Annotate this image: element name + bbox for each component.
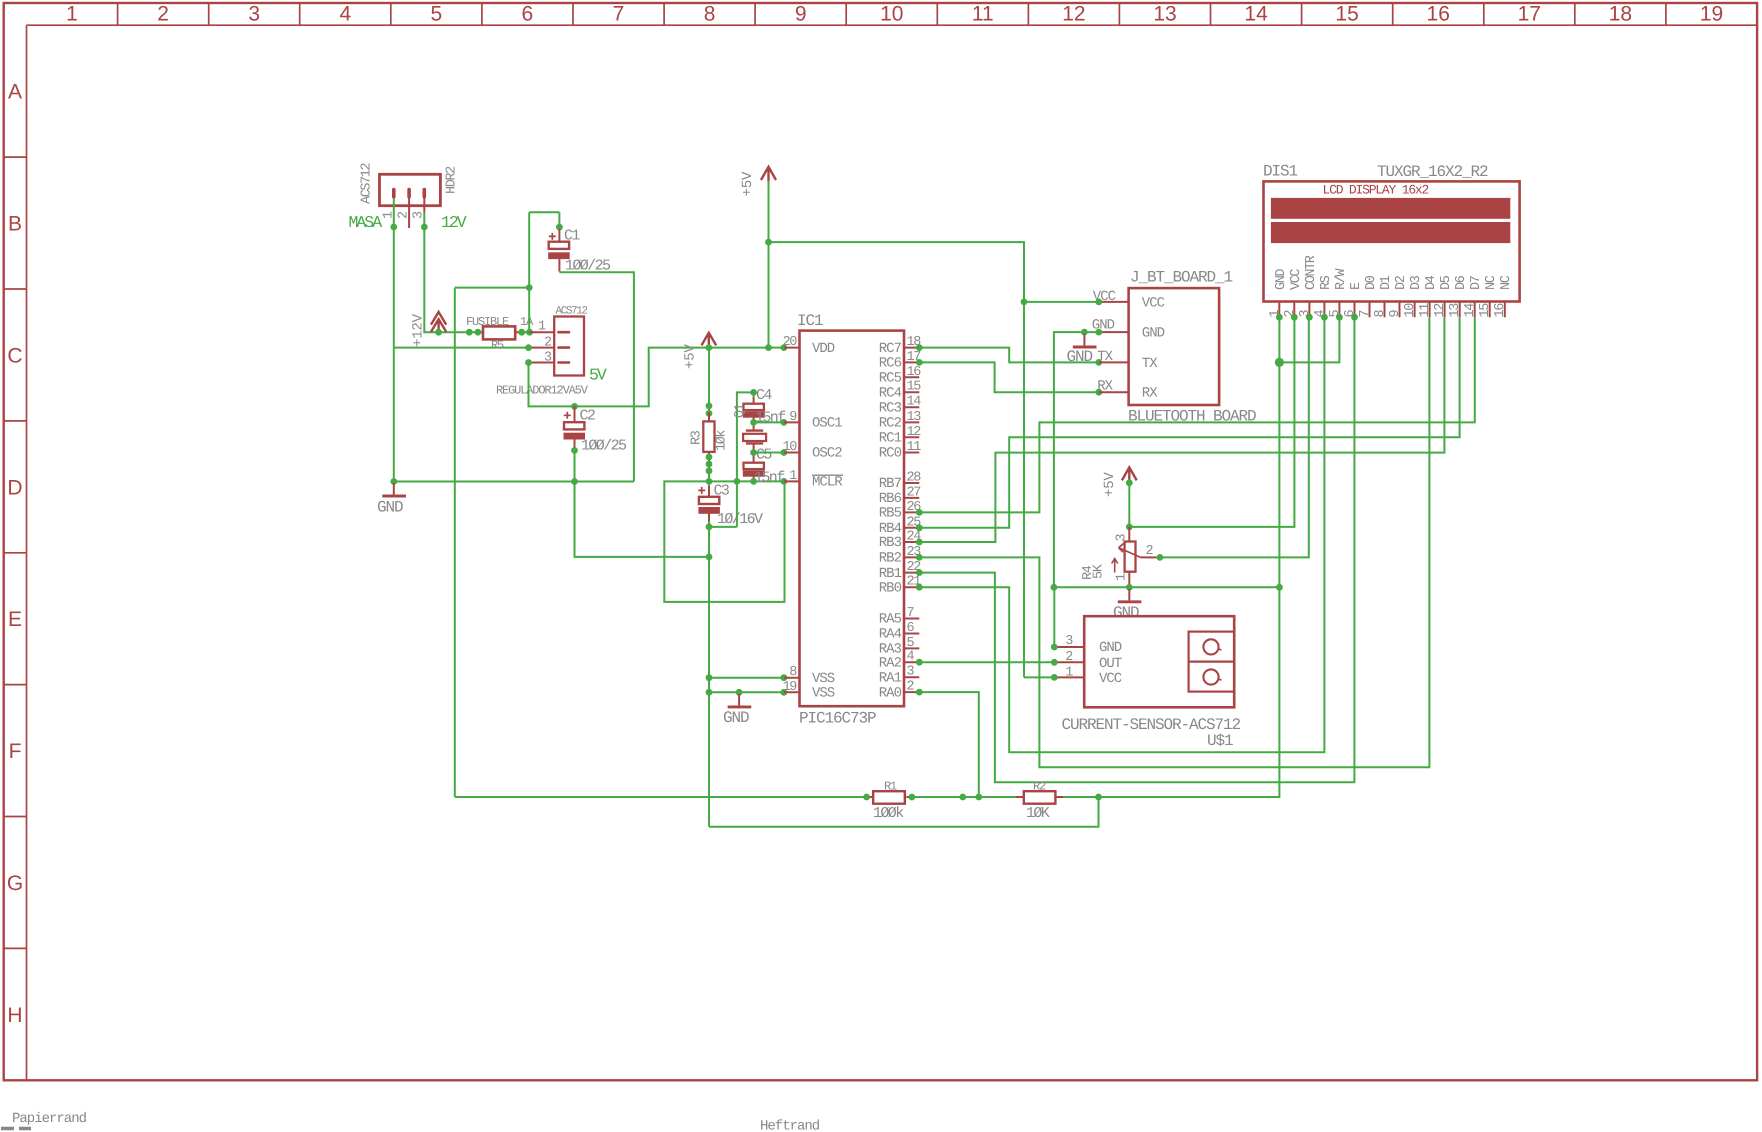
junction dot regulator pin2 xyxy=(525,344,532,351)
svg-text:16: 16 xyxy=(1427,3,1450,26)
potentiometer R4 5K body xyxy=(1125,542,1136,572)
junction dot C1 top xyxy=(556,224,563,231)
svg-text:RC2: RC2 xyxy=(879,416,902,432)
svg-text:4: 4 xyxy=(339,3,351,26)
HDR2 pin 3 lead xyxy=(423,198,425,213)
junction dot rail at LCD GND riser xyxy=(1276,584,1283,591)
svg-text:20: 20 xyxy=(783,335,798,350)
junction dot +12V arrow base xyxy=(435,329,442,336)
junction dot sensor pin2 xyxy=(1051,659,1058,666)
svg-text:OUT: OUT xyxy=(1099,656,1122,672)
svg-text:12: 12 xyxy=(1433,303,1448,318)
junction dot divider mid b (RA0 tap) xyxy=(975,794,982,801)
wire MASA riser from header pin1 down to ground row xyxy=(393,226,395,482)
IC1 left-side pin leads xyxy=(784,348,800,693)
junction dot RA2 pin xyxy=(916,659,923,666)
wire C1 bottom to ground row xyxy=(559,272,634,481)
wire RB2 to LCD D4 xyxy=(919,317,1429,767)
svg-text:5V: 5V xyxy=(589,366,607,385)
svg-text:RC0: RC0 xyxy=(879,446,902,462)
regulator U2 ACS712 REGULADOR12VA5V body xyxy=(554,317,584,376)
wire RB5 to LCD D7 (bus 1) xyxy=(919,317,1475,512)
svg-text:VCC: VCC xyxy=(1142,295,1165,311)
svg-text:C1: C1 xyxy=(564,228,580,245)
svg-text:12: 12 xyxy=(907,425,922,440)
svg-text:C5: C5 xyxy=(756,447,772,464)
sensor terminal block xyxy=(1189,632,1235,692)
wire LCD R/W tied to LCD GND riser xyxy=(1279,317,1339,362)
regulator pin 3 lead xyxy=(529,362,555,364)
wire ground rail at R4 row xyxy=(1054,586,1280,588)
fuse R6 FUSIBLE 1A body xyxy=(483,326,515,339)
wire MASA branch to regulator pin 2 xyxy=(394,347,529,349)
wire +5V riser down to VDD row xyxy=(768,181,770,348)
wire bottom ground loop xyxy=(709,797,1099,827)
svg-text:1Øk: 1Øk xyxy=(715,430,730,451)
wire 12V riser from header pin3 down to fuse row xyxy=(424,226,469,332)
svg-text:10: 10 xyxy=(783,440,798,455)
junction dot MCLR junction at R3/C3 xyxy=(706,478,713,485)
svg-text:R2: R2 xyxy=(1033,780,1046,794)
power symbol +5V arrow (at R4) xyxy=(1122,467,1137,481)
svg-text:14: 14 xyxy=(907,395,922,410)
junction dot +5V arrow at VDD row xyxy=(705,344,712,351)
svg-text:R/W: R/W xyxy=(1334,268,1349,290)
svg-text:RA4: RA4 xyxy=(879,627,902,643)
svg-text:9: 9 xyxy=(795,3,807,26)
svg-text:FUSIBLE 1A: FUSIBLE 1A xyxy=(466,315,534,329)
svg-text:+5V: +5V xyxy=(740,171,756,196)
svg-text:15: 15 xyxy=(907,380,922,395)
junction dot RC6 pin xyxy=(916,359,923,366)
wire divider row middle (R1 to R2) xyxy=(912,796,1016,798)
MCLR overline xyxy=(812,474,843,476)
wire RB4 to LCD D6 (bus 2) xyxy=(919,317,1459,528)
svg-text:D1: D1 xyxy=(1379,275,1394,290)
wire +5V branch to bluetooth VCC and sensor rail xyxy=(769,242,1025,677)
junction dot ground row at MASA xyxy=(390,478,397,485)
svg-text:15nf: 15nf xyxy=(754,470,785,487)
R4 adjust arrow mark xyxy=(1112,559,1118,573)
wire VSS pin19 row xyxy=(709,691,784,693)
wire crystal frame riser (C4 top to C3 bottom) xyxy=(737,392,754,527)
junction dot C3 rail at ground jog xyxy=(706,554,713,561)
svg-text:VDD: VDD xyxy=(812,341,835,357)
junction dot RB2 pin xyxy=(916,554,923,561)
svg-text:1ØØ/25: 1ØØ/25 xyxy=(581,438,627,455)
junction dot MCLR pin xyxy=(781,478,788,485)
junction dots below R3 xyxy=(706,454,713,461)
wire C2 bottom to ground row xyxy=(574,450,576,481)
ground symbol GND below VSS xyxy=(738,694,740,706)
wire +5V to R4 pin3 and LCD VCC xyxy=(1129,317,1294,527)
svg-text:GND: GND xyxy=(1274,269,1289,290)
svg-text:TX: TX xyxy=(1142,356,1158,372)
svg-text:+5V: +5V xyxy=(1102,472,1118,497)
svg-text:12V: 12V xyxy=(441,213,467,232)
svg-text:RC5: RC5 xyxy=(879,371,902,387)
wire RB0 to LCD RS xyxy=(919,317,1324,752)
capacitor C3 (electrolytic 10/16V) xyxy=(698,481,720,521)
junction dot regulator pin3 xyxy=(525,359,532,366)
junction dot ground row at C2 xyxy=(571,478,578,485)
svg-text:19: 19 xyxy=(1700,3,1723,26)
wire divider row right (R2 to ground riser) xyxy=(1063,796,1098,798)
svg-text:NC: NC xyxy=(1484,275,1499,290)
svg-text:10: 10 xyxy=(1403,303,1418,318)
capacitor C1 (electrolytic 100/25) xyxy=(548,229,570,272)
svg-text:RB1: RB1 xyxy=(879,566,902,582)
svg-text:GND: GND xyxy=(1142,326,1165,342)
wire sensor GND riser xyxy=(1053,587,1055,647)
junction dot C3 bottom xyxy=(706,524,713,531)
svg-text:D6: D6 xyxy=(1454,275,1469,290)
power symbol +5V arrow (at VDD rail) xyxy=(702,333,717,346)
junction dot C2 top xyxy=(571,403,578,410)
bluetooth module J_BT_BOARD_1 body xyxy=(1129,288,1220,405)
junction dot +5V arrow base at R4 xyxy=(1126,479,1133,486)
svg-text:1ØØk: 1ØØk xyxy=(873,805,904,822)
svg-text:RB0: RB0 xyxy=(879,580,902,596)
junction dots VSS8 xyxy=(706,674,713,681)
junction dot +5V riser at VDD row xyxy=(765,344,772,351)
wire sensor OUT to RA2 xyxy=(919,661,1054,663)
svg-text:U$1: U$1 xyxy=(1207,732,1233,750)
regulator pin 2 lead xyxy=(529,347,555,349)
column tick lines xyxy=(118,3,1666,25)
junction dot R1 left xyxy=(863,794,870,801)
svg-text:11: 11 xyxy=(972,3,994,26)
junction dots OSC2 row xyxy=(750,449,757,456)
svg-text:OSC2: OSC2 xyxy=(812,446,842,462)
ground symbol GND below R4 xyxy=(1128,589,1130,601)
junction dot +5V branch xyxy=(765,239,772,246)
R4 wiper pin 2 lead xyxy=(1141,556,1157,558)
junction dot bluetooth GND pin xyxy=(1095,329,1102,336)
svg-text:GND: GND xyxy=(1067,348,1093,366)
svg-text:16: 16 xyxy=(1493,303,1508,318)
wire MCLR outer loop (left-down-right-up) xyxy=(664,481,784,602)
wire R3 bottom to MCLR row xyxy=(708,463,710,481)
svg-text:27: 27 xyxy=(907,485,922,500)
svg-text:R5: R5 xyxy=(491,338,504,352)
svg-text:+5V: +5V xyxy=(683,344,699,369)
svg-text:D: D xyxy=(7,476,22,499)
svg-text:18: 18 xyxy=(1609,3,1632,26)
SECTION-BOTTOM xyxy=(455,317,1475,827)
sensor pin leads 3,2,1 xyxy=(1054,647,1084,677)
svg-text:RB3: RB3 xyxy=(879,535,902,551)
SECTION-BT xyxy=(916,269,1256,588)
power symbol +12V arrow xyxy=(431,312,446,332)
svg-text:B: B xyxy=(8,213,22,236)
HDR2 pin 2 lead xyxy=(408,198,410,228)
svg-text:D0: D0 xyxy=(1364,275,1379,290)
wire C1 top connection xyxy=(558,212,560,227)
svg-text:1: 1 xyxy=(66,3,78,26)
junction dot RB4 pin xyxy=(916,524,923,531)
svg-text:ACS712: ACS712 xyxy=(556,306,588,318)
svg-text:Papierrand: Papierrand xyxy=(12,1111,87,1127)
SECTION-IC xyxy=(664,167,1099,827)
svg-text:RC1: RC1 xyxy=(879,431,902,447)
crystal Q1 xyxy=(743,422,766,452)
svg-text:HDR2: HDR2 xyxy=(445,166,460,194)
svg-text:RX: RX xyxy=(1142,386,1158,402)
wire +12V riser to C1 loop and down to R1 row xyxy=(455,212,560,797)
svg-text:F: F xyxy=(9,740,22,763)
svg-text:10: 10 xyxy=(880,3,903,26)
svg-text:GND: GND xyxy=(377,499,403,517)
svg-text:17: 17 xyxy=(1518,3,1541,26)
svg-text:PIC16C73P: PIC16C73P xyxy=(799,710,876,728)
svg-text:D3: D3 xyxy=(1409,275,1424,290)
IC1 PIC16C73P body xyxy=(800,331,905,707)
svg-text:RX: RX xyxy=(1097,379,1113,395)
svg-text:LCD DISPLAY 16x2: LCD DISPLAY 16x2 xyxy=(1323,183,1429,198)
current sensor U$1 body xyxy=(1084,616,1234,707)
junction dot header pin1 xyxy=(390,224,397,231)
svg-text:OSC1: OSC1 xyxy=(812,416,842,432)
svg-text:Q1: Q1 xyxy=(733,403,748,418)
svg-text:13: 13 xyxy=(1448,303,1463,318)
junction dot R4 pin3 branch xyxy=(1126,524,1133,531)
svg-text:16: 16 xyxy=(907,365,922,380)
row tick lines xyxy=(4,157,27,948)
junction dot R4 wiper pin2 xyxy=(1157,554,1164,561)
R3 pin leads xyxy=(708,412,710,463)
connector HDR2 (ACS712 pin header) xyxy=(380,174,441,205)
wire C3 bottom jog to crystal riser xyxy=(709,526,737,528)
svg-text:3: 3 xyxy=(248,3,260,26)
svg-text:13: 13 xyxy=(907,410,922,425)
svg-text:2: 2 xyxy=(157,3,169,26)
SECTION-R4-SENSOR xyxy=(916,317,1309,750)
svg-text:CONTR: CONTR xyxy=(1304,255,1319,290)
svg-text:1Ø/16V: 1Ø/16V xyxy=(717,511,763,528)
svg-text:15: 15 xyxy=(1478,303,1493,318)
LCD display bar row 1 xyxy=(1271,198,1510,219)
LCD display DIS1 TUXGR_16X2_R2 body xyxy=(1264,181,1520,301)
svg-text:11: 11 xyxy=(907,440,922,455)
svg-text:C3: C3 xyxy=(714,483,730,500)
svg-text:7: 7 xyxy=(613,3,625,26)
wire sensor VCC to +5V rail xyxy=(1024,676,1054,678)
junction dot RX pin xyxy=(1095,389,1102,396)
svg-text:5K: 5K xyxy=(1092,563,1107,579)
R1 pin leads xyxy=(867,796,912,798)
junction dot RB1 pin xyxy=(916,569,923,576)
junction dot R4 pin1 on rail xyxy=(1126,584,1133,591)
capacitor C4 15nf xyxy=(743,392,765,422)
junction dot ground rail tee xyxy=(1051,584,1058,591)
junction dots OSC1 row xyxy=(750,419,757,426)
svg-text:D2: D2 xyxy=(1394,275,1409,290)
svg-text:TUXGR_16X2_R2: TUXGR_16X2_R2 xyxy=(1377,163,1488,181)
svg-text:D5: D5 xyxy=(1439,275,1454,290)
svg-text:REGULADOR12VA5V: REGULADOR12VA5V xyxy=(496,384,589,398)
svg-text:8: 8 xyxy=(704,3,716,26)
svg-text:RA5: RA5 xyxy=(879,612,902,628)
HDR2 pin contacts xyxy=(394,190,425,197)
wire RC6 to bluetooth RX xyxy=(919,362,1099,392)
junction dot RB5 pin xyxy=(916,509,923,516)
svg-text:H: H xyxy=(7,1004,22,1027)
svg-text:R3: R3 xyxy=(690,430,705,445)
junction dot C4 top xyxy=(750,389,757,396)
wire RA0 to divider midpoint xyxy=(919,692,979,797)
junction dot RA0 pin xyxy=(916,689,923,696)
svg-text:14: 14 xyxy=(1244,3,1268,26)
sensor terminal circle 2 xyxy=(1203,669,1218,684)
junction dot RB3 pin xyxy=(916,539,923,546)
bluetooth pin leads VCC GND TX RX xyxy=(1099,302,1129,392)
svg-text:19: 19 xyxy=(783,680,798,695)
wire RB1 to LCD E xyxy=(919,317,1354,782)
svg-text:J_BT_BOARD_1: J_BT_BOARD_1 xyxy=(1130,269,1233,287)
junction dot C1-loop tee xyxy=(526,284,533,291)
svg-text:GND: GND xyxy=(1113,604,1139,622)
svg-text:6: 6 xyxy=(522,3,534,26)
svg-text:RB5: RB5 xyxy=(879,506,902,522)
wire RC7 to bluetooth TX xyxy=(919,348,1099,363)
svg-text:Heftrand: Heftrand xyxy=(760,1119,820,1132)
R4 pin 3 lead xyxy=(1128,527,1130,542)
svg-text:GND: GND xyxy=(1092,317,1115,333)
SECTION-LCD xyxy=(1263,163,1520,321)
svg-text:+12V: +12V xyxy=(411,313,427,347)
capacitor C2 (electrolytic 100/25) xyxy=(564,406,586,450)
svg-text:1ØK: 1ØK xyxy=(1026,805,1050,822)
svg-text:RC6: RC6 xyxy=(879,356,902,372)
junction dot GND symbol tap xyxy=(1081,329,1088,336)
junction dot sensor pin1 xyxy=(1051,674,1058,681)
svg-text:RB7: RB7 xyxy=(879,476,902,492)
wire fuse output segment xyxy=(522,331,530,333)
svg-text:VCC: VCC xyxy=(1289,269,1304,290)
svg-text:RA1: RA1 xyxy=(879,670,902,686)
svg-text:GND: GND xyxy=(723,709,749,727)
resistor R1 100k body xyxy=(873,791,905,804)
resistor R3 10k body xyxy=(703,421,714,452)
wire RB3 to LCD D5 (bus 3) xyxy=(919,317,1444,542)
svg-text:C: C xyxy=(7,344,22,367)
svg-text:VCC: VCC xyxy=(1093,289,1116,305)
fuse pin leads xyxy=(478,331,523,333)
corner dashes bottom-left xyxy=(1,1127,31,1130)
svg-text:DIS1: DIS1 xyxy=(1263,163,1298,181)
svg-text:E: E xyxy=(8,608,22,631)
svg-text:C4: C4 xyxy=(756,387,772,404)
R4 pin 1 lead xyxy=(1128,572,1130,588)
svg-text:RA0: RA0 xyxy=(879,685,902,701)
capacitor C5 15nf xyxy=(743,453,765,482)
wire MCLR row to IC pin 1 xyxy=(709,480,784,482)
R2 pin leads xyxy=(1016,796,1064,798)
wire R4 wiper to LCD CONTR xyxy=(1160,317,1309,557)
junction dot RC7 pin xyxy=(916,344,923,351)
junction dot R1 right xyxy=(909,794,916,801)
junction dot sensor pin3 xyxy=(1051,644,1058,651)
junction dot crystal riser at MCLR row xyxy=(734,478,741,485)
sensor terminal circle 1 xyxy=(1203,639,1218,654)
junction dot +5V at VCC row xyxy=(1021,299,1028,306)
junction dot bluetooth VCC pin xyxy=(1095,299,1102,306)
svg-text:14: 14 xyxy=(1463,303,1478,318)
svg-text:28: 28 xyxy=(907,471,922,486)
R4 wiper arm xyxy=(1119,543,1141,557)
junction dots LCD pins 1-6 xyxy=(1276,314,1283,321)
svg-text:MCLR: MCLR xyxy=(812,475,843,491)
svg-text:RA2: RA2 xyxy=(879,655,902,671)
svg-text:RC3: RC3 xyxy=(879,400,902,416)
svg-text:TX: TX xyxy=(1097,349,1113,365)
svg-text:R1: R1 xyxy=(884,780,897,794)
ground symbol GND below header xyxy=(393,483,395,495)
wire divider row left (+12V to R1) xyxy=(455,796,867,798)
IC1 right-side pin leads xyxy=(904,348,919,692)
LCD pin leads 1-16 xyxy=(1279,302,1505,318)
junction dot C5 bottom on MCLR row xyxy=(750,478,757,485)
svg-text:IC1: IC1 xyxy=(797,312,823,330)
junction dot header pin3 xyxy=(421,224,428,231)
LCD display bar row 2 xyxy=(1271,222,1510,243)
junction dot R/W-GND tie (large) xyxy=(1275,358,1284,367)
regulator pin 1 lead xyxy=(530,331,555,333)
wire LCD GND riser down to divider row xyxy=(1099,317,1280,797)
wire OSC1 row xyxy=(754,421,784,423)
junction dot divider mid a xyxy=(959,794,966,801)
wire ground rail below C3 (to VSS and bottom loop) xyxy=(708,527,710,827)
svg-text:RC4: RC4 xyxy=(879,385,902,401)
wire ground row from MASA to C1 riser xyxy=(394,481,634,483)
wire bluetooth VCC row xyxy=(1024,301,1099,303)
svg-text:RS: RS xyxy=(1319,275,1334,290)
svg-text:RB2: RB2 xyxy=(879,551,902,567)
wire fuse input segment xyxy=(469,331,478,333)
svg-text:C2: C2 xyxy=(580,408,595,425)
resistor R2 10K body xyxy=(1024,791,1056,804)
svg-text:D7: D7 xyxy=(1469,275,1484,290)
svg-text:MASA: MASA xyxy=(349,213,383,232)
svg-text:GND: GND xyxy=(1099,640,1122,656)
wire VSS pin8 row xyxy=(709,677,784,679)
regulator internal pin marks xyxy=(559,332,570,362)
junction dot RB0 pin xyxy=(916,584,923,591)
svg-text:VSS: VSS xyxy=(812,686,835,702)
svg-text:ACS712: ACS712 xyxy=(360,162,375,204)
junction dot R2 right ground node xyxy=(1095,794,1102,801)
svg-text:15: 15 xyxy=(1335,3,1358,26)
junction dots on fuse row xyxy=(466,329,473,336)
ground symbol GND at bluetooth xyxy=(1083,334,1085,346)
junction dots above R3 xyxy=(706,403,713,410)
svg-text:5: 5 xyxy=(431,3,443,26)
wire OSC2 row xyxy=(754,452,784,454)
wire R3 pull-up from VDD row xyxy=(708,348,710,412)
wire bluetooth GND to ground rail xyxy=(1054,332,1099,587)
svg-text:D4: D4 xyxy=(1424,275,1439,290)
svg-text:A: A xyxy=(8,81,22,104)
junction dot TX pin xyxy=(1095,359,1102,366)
junction dot VDD pin xyxy=(781,344,788,351)
svg-text:VSS: VSS xyxy=(812,671,835,687)
wire ground jog from C2 junction to C3 rail xyxy=(575,482,710,557)
junction dot C2 bottom xyxy=(571,447,578,454)
svg-text:12: 12 xyxy=(1062,3,1085,26)
svg-text:NC: NC xyxy=(1499,275,1514,290)
svg-text:13: 13 xyxy=(1153,3,1176,26)
